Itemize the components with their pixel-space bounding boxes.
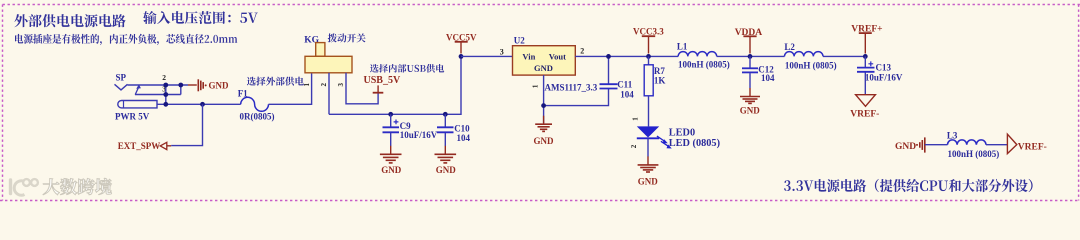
pin 2 label (U2 Vout)	[580, 47, 584, 56]
power port VREF+	[851, 24, 882, 53]
pin 3 label (jack)	[162, 84, 166, 93]
ground GND (C12)	[740, 88, 761, 116]
svg-text:GND: GND	[209, 81, 230, 91]
svg-text:GND: GND	[638, 176, 659, 186]
capacitor C11 104	[600, 56, 635, 99]
svg-text:SP: SP	[116, 72, 127, 82]
svg-text:VREF-: VREF-	[850, 109, 879, 119]
ground GND (LED)	[638, 156, 659, 186]
node: VCC3.3 junction	[646, 54, 651, 59]
pin 1 label (U2 GND)	[532, 84, 540, 88]
svg-text:2: 2	[162, 73, 166, 82]
svg-text:GND: GND	[895, 142, 916, 152]
svg-text:AMS1117_3.3: AMS1117_3.3	[545, 83, 598, 93]
ground GND (C10)	[435, 146, 457, 175]
wire: jack vertical tie	[165, 85, 167, 104]
svg-text:3: 3	[337, 83, 345, 87]
connector SP (power jack)	[115, 72, 158, 121]
wire: L2 to VREF+	[823, 55, 865, 57]
svg-text:L1: L1	[677, 42, 688, 52]
pin 2 label (LED cathode)	[630, 144, 638, 148]
svg-text:L3: L3	[947, 131, 958, 141]
wire: to EXT_SPW	[171, 104, 202, 145]
label 拨动开关	[328, 33, 366, 42]
pin 3 label (KG)	[337, 83, 345, 87]
label 选择外部供电	[247, 77, 304, 86]
pin 2 label (jack)	[162, 73, 166, 82]
wire: fuse to switch pin1	[269, 73, 312, 105]
capacitor C10 104	[437, 114, 471, 146]
power port VCC3.3	[633, 27, 664, 54]
ground GND (C9)	[380, 146, 402, 175]
ground GND (L3, right-facing)	[895, 137, 925, 152]
pin 1 label (LED anode)	[632, 117, 640, 121]
svg-text:GND: GND	[381, 165, 402, 175]
svg-text:PWR 5V: PWR 5V	[115, 112, 150, 122]
svg-text:10uF/16V: 10uF/16V	[865, 73, 903, 83]
watermark 大数跨境	[11, 178, 112, 195]
LED LED0	[637, 126, 720, 156]
svg-text:100nH (0805): 100nH (0805)	[948, 149, 1000, 159]
svg-text:Vin: Vin	[522, 51, 535, 61]
node: VDDA junction	[748, 54, 753, 59]
port VREF- (right arrow)	[1007, 134, 1046, 153]
svg-text:GND: GND	[436, 165, 457, 175]
wire: switch pin3 to USB_5V	[346, 73, 378, 104]
svg-text:L2: L2	[784, 42, 795, 52]
node: jack junctions	[163, 83, 205, 107]
inductor L3 100nH	[947, 131, 999, 159]
pin 2 label (KG)	[320, 83, 328, 87]
wire: L1 to VDDA	[717, 55, 785, 57]
ground GND (U2)	[534, 116, 555, 147]
wire: jack tip line	[128, 84, 189, 86]
svg-text:C11: C11	[617, 80, 633, 90]
power port USB_5V	[364, 75, 401, 93]
wire: U2 Vout rail	[575, 55, 678, 57]
svg-text:100nH (0805): 100nH (0805)	[785, 60, 837, 70]
svg-text:2: 2	[630, 144, 638, 148]
node: VREF+ junction	[863, 54, 868, 59]
svg-text:104: 104	[620, 90, 634, 100]
node: VCC5V junction	[459, 54, 464, 59]
svg-text:10uF/16V: 10uF/16V	[400, 130, 438, 140]
regulator U2 AMS1117_3.3	[513, 36, 598, 93]
svg-text:1: 1	[632, 117, 640, 121]
svg-text:U2: U2	[514, 36, 525, 46]
inductor L2 100nH	[784, 42, 836, 70]
capacitor C9 10uF/16V	[383, 114, 438, 146]
title: 输入电压范围 5V	[143, 11, 258, 24]
capacitor C12 104	[742, 56, 775, 88]
title: 外部供电电源电路	[14, 14, 125, 27]
fuse F1 0R(0805)	[238, 88, 275, 121]
port EXT_SPW	[118, 141, 171, 151]
power port VCC5V	[446, 32, 477, 53]
wire: VCC5V to U2 Vin	[461, 55, 513, 57]
svg-text:1: 1	[303, 83, 311, 87]
node: rail junctions	[388, 112, 447, 117]
svg-text:2: 2	[580, 47, 584, 56]
svg-text:USB_5V: USB_5V	[364, 75, 401, 86]
svg-text:VCC3.3: VCC3.3	[633, 27, 664, 37]
svg-text:C13: C13	[876, 62, 892, 72]
node: U2 GND junction	[541, 103, 546, 108]
svg-text:VREF-: VREF-	[1018, 142, 1047, 152]
resistor R7 1K	[644, 56, 665, 126]
wire: L3 to VREF- port	[986, 144, 1007, 146]
pin 3 label (U2 Vin)	[500, 47, 504, 56]
wire: jack loop tie	[180, 85, 182, 95]
svg-text:3: 3	[500, 47, 504, 56]
svg-text:100nH (0805): 100nH (0805)	[678, 60, 730, 70]
svg-text:1: 1	[532, 84, 540, 88]
note: 电源插座说明	[15, 34, 237, 45]
svg-text:Vout: Vout	[549, 51, 566, 61]
svg-text:2: 2	[320, 83, 328, 87]
capacitor C13 10uF/16V	[857, 56, 903, 94]
svg-text:LED (0805): LED (0805)	[669, 138, 720, 149]
svg-text:GND: GND	[534, 136, 555, 146]
wire: sleeve output	[157, 103, 241, 105]
power port VREF- (triangle)	[850, 95, 879, 120]
wire: C11 bottom link	[544, 89, 609, 106]
switch KG (拨动开关)	[304, 35, 352, 72]
svg-text:GND: GND	[740, 106, 761, 116]
wire: bottom rail to VCC5V riser	[329, 56, 461, 114]
wire: switch pin2 down to rail	[328, 73, 330, 115]
ground GND (jack pin2, right-facing)	[188, 79, 229, 91]
wire: GND to L3	[925, 144, 948, 146]
power port VDDA	[735, 28, 763, 53]
svg-text:104: 104	[761, 73, 775, 83]
wire: jack middle contact	[135, 94, 181, 96]
svg-text:104: 104	[457, 133, 471, 143]
label 选择内部USB供电	[370, 64, 444, 73]
caption: 3.3V电源电路	[784, 179, 1033, 192]
svg-text:GND: GND	[534, 63, 553, 73]
wire: U2 GND pin down	[543, 75, 545, 123]
node: Vout junction	[606, 54, 611, 59]
svg-text:0R(0805): 0R(0805)	[240, 112, 275, 122]
svg-text:1K: 1K	[654, 75, 666, 85]
inductor L1 100nH	[677, 42, 730, 70]
svg-text:EXT_SPW: EXT_SPW	[118, 141, 161, 151]
pin 1 label (KG)	[303, 83, 311, 87]
